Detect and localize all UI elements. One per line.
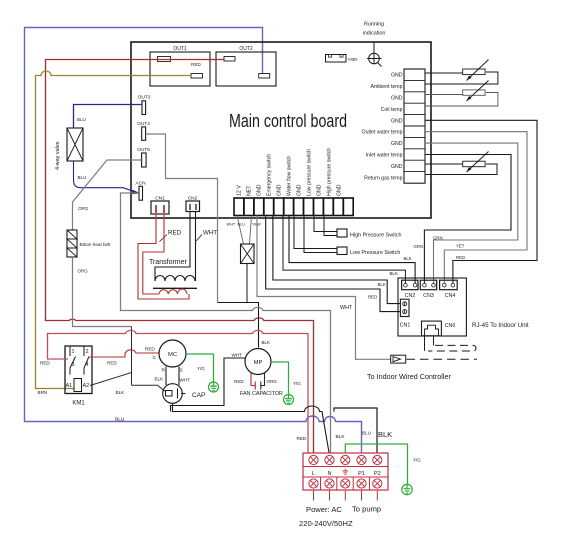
svg-text:Return gas temp: Return gas temp xyxy=(364,175,402,181)
connector OUT3 xyxy=(142,101,146,115)
svg-text:GND: GND xyxy=(391,141,403,147)
svg-text:N: N xyxy=(327,471,331,477)
labels sensor strip xyxy=(362,73,403,182)
connector CN4 xyxy=(440,280,458,299)
wire sensor bundle pin5 to CN4 xyxy=(425,120,537,283)
svg-text:BRN: BRN xyxy=(38,390,48,395)
4-way valve Y1 xyxy=(55,128,83,170)
svg-text:CN1: CN1 xyxy=(155,196,165,202)
connector CN2 (board) xyxy=(186,196,200,212)
svg-text:BLU: BLU xyxy=(362,431,371,436)
switch S1 sensor box xyxy=(227,216,262,264)
connector CN1 (indoor board) xyxy=(400,299,411,328)
svg-text:High Pressure Switch: High Pressure Switch xyxy=(350,233,402,239)
svg-text:GND: GND xyxy=(391,118,403,124)
svg-text:1: 1 xyxy=(72,349,75,355)
svg-text:WHT: WHT xyxy=(203,230,217,237)
amplifier symbol to wired controller xyxy=(391,355,406,363)
svg-text:220-240V/50HZ: 220-240V/50HZ xyxy=(299,519,353,528)
terminal strip J1 (board bottom) xyxy=(234,198,353,216)
svg-text:NET: NET xyxy=(247,185,253,196)
svg-text:P2: P2 xyxy=(374,471,381,477)
svg-text:BLK: BLK xyxy=(155,377,165,382)
svg-text:BLU: BLU xyxy=(115,417,125,423)
svg-text:BLK: BLK xyxy=(378,282,386,287)
svg-text:ORG: ORG xyxy=(267,379,278,384)
svg-text:Coil temp: Coil temp xyxy=(381,107,403,113)
wire J1 to CN2 pin2 xyxy=(289,216,415,284)
svg-text:CN2: CN2 xyxy=(405,293,416,299)
heater bottom heat belt xyxy=(67,230,111,257)
svg-text:Outlet water temp: Outlet water temp xyxy=(362,130,403,136)
svg-text:A2: A2 xyxy=(83,383,90,389)
wire J1 to CN1r pin2 xyxy=(266,216,401,312)
wire BRN olive from OUT1 to KM1 A1 xyxy=(36,71,192,389)
svg-text:RED: RED xyxy=(456,255,465,260)
wire earth MP green xyxy=(271,362,289,394)
wire valve to ACN xyxy=(74,161,140,193)
svg-text:ORG: ORG xyxy=(78,269,89,274)
wire OUT4 to fan junction xyxy=(146,134,218,303)
wire BLU pump loop (OUT2 to P1 via left border) xyxy=(25,28,362,453)
svg-text:BLK: BLK xyxy=(390,271,398,276)
svg-text:WHT: WHT xyxy=(232,353,243,358)
svg-text:3: 3 xyxy=(72,362,75,368)
svg-text:Main control board: Main control board xyxy=(229,111,347,131)
svg-text:Y/G: Y/G xyxy=(197,366,205,371)
terminal stubs below xyxy=(314,490,378,501)
svg-text:C: C xyxy=(153,355,157,361)
svg-text:Running: Running xyxy=(364,22,384,28)
svg-text:MP: MP xyxy=(254,360,263,366)
wire RJ45 cable dashed xyxy=(425,336,434,351)
wire OUT5 to heat belt xyxy=(73,160,142,230)
svg-text:Bttom heat belt: Bttom heat belt xyxy=(80,242,112,247)
wire sensor bundle pin6 to CN4 xyxy=(425,132,527,283)
svg-text:OUT5: OUT5 xyxy=(137,147,150,153)
svg-text:Ambient temp: Ambient temp xyxy=(370,84,402,90)
svg-text:BLK: BLK xyxy=(262,340,271,345)
wire J1 to CN1r pin1 xyxy=(273,216,401,304)
wire OUT3 to 4-way valve xyxy=(74,105,143,129)
svg-text:To pump: To pump xyxy=(352,505,381,514)
motor MP fan xyxy=(245,349,271,375)
svg-text:RED: RED xyxy=(368,295,377,300)
relay OUT2 xyxy=(216,46,276,86)
relay OUT1 xyxy=(150,46,210,86)
svg-text:A1: A1 xyxy=(66,383,73,389)
svg-text:GND: GND xyxy=(257,184,263,196)
svg-text:GND: GND xyxy=(391,96,403,102)
svg-text:CN3: CN3 xyxy=(423,293,434,299)
thermistor RT2 coil xyxy=(425,81,498,107)
svg-text:CN1: CN1 xyxy=(400,323,411,329)
ground earth E3 xyxy=(402,484,412,494)
svg-text:CN4: CN4 xyxy=(445,293,456,299)
transformer T1 xyxy=(138,212,197,300)
wire heat belt to KM1/CAP xyxy=(73,257,132,327)
terminal screws top row xyxy=(309,455,382,464)
svg-text:GND: GND xyxy=(391,164,403,170)
labels J1 rotated xyxy=(237,148,343,196)
svg-text:CAP: CAP xyxy=(192,392,205,399)
svg-text:Inlet water temp: Inlet water temp xyxy=(366,153,403,159)
wire earth power green xyxy=(345,444,407,484)
svg-text:Low pressure switch: Low pressure switch xyxy=(307,149,313,196)
wire sensor bundle pin7 to CN3 xyxy=(425,143,518,283)
svg-text:CN6: CN6 xyxy=(445,323,456,329)
ground earth E2 xyxy=(284,395,294,405)
svg-text:WHT: WHT xyxy=(180,378,191,383)
wire MC to CAP black xyxy=(165,367,167,386)
svg-text:OUT2: OUT2 xyxy=(239,46,253,52)
svg-text:ORG: ORG xyxy=(78,206,89,211)
svg-text:Y/G: Y/G xyxy=(293,381,301,386)
svg-text:RED: RED xyxy=(234,379,244,384)
svg-text:4-way valve: 4-way valve xyxy=(55,142,61,170)
svg-text:BLU: BLU xyxy=(77,117,86,122)
svg-text:RED: RED xyxy=(297,436,307,441)
svg-text:High pressure switch: High pressure switch xyxy=(327,148,333,196)
svg-text:FAN CAPACITOR: FAN CAPACITOR xyxy=(240,391,283,397)
svg-text:To Indoor Wired Controller: To Indoor Wired Controller xyxy=(367,372,451,381)
wire S1 to junction xyxy=(246,264,248,303)
svg-text:OUT3: OUT3 xyxy=(138,95,151,101)
wire low pressure switch xyxy=(294,216,337,253)
terminal screws bottom row xyxy=(309,479,382,488)
thermistor RT1 ambient xyxy=(425,60,498,85)
wire BLK to P2 xyxy=(334,408,377,453)
terminal labels L N G P1 P2 xyxy=(312,471,381,477)
wire neutral CAP to N terminal xyxy=(173,404,330,453)
svg-text:caps: caps xyxy=(348,57,358,62)
svg-text:RED: RED xyxy=(191,62,201,67)
connector CN3 xyxy=(420,280,436,299)
wire WHT neutral ACN to N xyxy=(121,193,331,453)
ground earth E1 xyxy=(209,382,219,392)
svg-text:WHT: WHT xyxy=(340,305,353,311)
svg-text:MC: MC xyxy=(168,352,177,358)
svg-text:GRN: GRN xyxy=(414,244,424,249)
svg-text:12 V: 12 V xyxy=(237,185,243,196)
connector CN1 (board) xyxy=(151,196,169,214)
svg-text:BLU: BLU xyxy=(238,223,246,227)
sensor terminal strip J2 (right) xyxy=(404,69,425,183)
svg-text:Y/G: Y/G xyxy=(413,458,421,463)
wire earth MC green xyxy=(186,354,214,382)
svg-text:BLK: BLK xyxy=(116,390,126,395)
svg-text:BLK: BLK xyxy=(336,434,346,440)
wire high pressure switch xyxy=(314,216,337,236)
wire WHT to wired controller xyxy=(257,216,391,360)
svg-text:ACN: ACN xyxy=(135,180,146,186)
wire sensor bundle pin8 to CN3 xyxy=(424,155,511,284)
wire RED KM1 feed loop xyxy=(48,330,309,452)
svg-text:S: S xyxy=(180,368,183,374)
motor MC compressor xyxy=(159,340,186,367)
ground symbol on block xyxy=(343,469,349,475)
connector caps xyxy=(326,55,359,63)
svg-text:GND: GND xyxy=(391,73,403,79)
wire J1 to CN2 pin1 xyxy=(283,216,405,284)
svg-text:Power: AC: Power: AC xyxy=(306,505,342,514)
svg-text:OUT4: OUT4 xyxy=(137,121,150,127)
svg-text:L: L xyxy=(312,471,315,477)
svg-text:GND: GND xyxy=(297,184,303,196)
svg-text:GND: GND xyxy=(277,184,283,196)
svg-text:OUT1: OUT1 xyxy=(173,46,187,52)
power terminal block TB1 xyxy=(303,453,388,490)
svg-text:Water flow switch: Water flow switch xyxy=(287,156,293,196)
capacitor CAP xyxy=(163,384,206,404)
svg-text:RJ-45 To Indoor Unit: RJ-45 To Indoor Unit xyxy=(472,322,529,329)
svg-text:KM1: KM1 xyxy=(72,401,85,407)
fan capacitor C2 xyxy=(261,372,265,390)
svg-text:Emergency switch: Emergency switch xyxy=(267,154,273,196)
svg-text:YET: YET xyxy=(456,244,465,249)
svg-text:GRN: GRN xyxy=(433,236,443,241)
svg-text:RED: RED xyxy=(107,361,117,366)
wire RED from OUT1 to L terminal xyxy=(46,60,314,453)
svg-text:CN2: CN2 xyxy=(188,196,198,202)
svg-text:Low Pressure Switch: Low Pressure Switch xyxy=(350,250,400,256)
svg-text:GND: GND xyxy=(337,184,343,196)
svg-text:GND: GND xyxy=(317,184,323,196)
wire junction to MP fan xyxy=(218,303,259,348)
svg-text:4: 4 xyxy=(86,362,89,368)
low pressure switch SP2 xyxy=(337,247,347,255)
svg-text:BLK: BLK xyxy=(378,430,392,439)
svg-text:RED: RED xyxy=(168,230,182,237)
svg-text:BLK: BLK xyxy=(404,256,412,261)
wire MP white to neutral xyxy=(171,358,246,412)
connector board box xyxy=(398,278,466,336)
svg-text:RED: RED xyxy=(145,347,155,352)
contactor KM1 xyxy=(65,346,92,407)
connector CN2 xyxy=(402,280,418,299)
svg-text:indication: indication xyxy=(363,31,386,37)
svg-text:RED: RED xyxy=(40,361,50,366)
svg-text:BLU: BLU xyxy=(78,175,87,180)
wire MP red to fan capacitor xyxy=(251,373,255,390)
high pressure switch SP1 xyxy=(337,229,347,237)
svg-text:P1: P1 xyxy=(358,471,365,477)
wire dashed controller xyxy=(407,358,478,360)
svg-text:R: R xyxy=(162,368,166,374)
connector OUT4 xyxy=(142,127,146,140)
thermistor RT3 return gas xyxy=(425,152,497,175)
main control board U1 outline xyxy=(131,42,431,218)
svg-text:Transformer: Transformer xyxy=(149,259,188,266)
connector ACN xyxy=(139,186,143,200)
wire RED KM1 to MC xyxy=(88,350,160,357)
connector OUT5 xyxy=(142,153,147,167)
svg-text:2: 2 xyxy=(86,349,89,355)
LED running indication xyxy=(363,22,386,67)
connector CN6 RJ-45 jack xyxy=(422,321,456,336)
svg-text:WHT: WHT xyxy=(227,223,236,227)
wire MC to CAP white xyxy=(178,367,180,386)
